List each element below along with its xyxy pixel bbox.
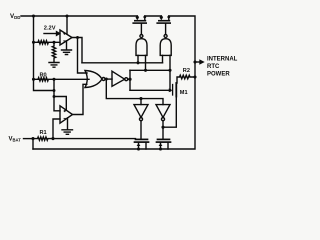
svg-text:POWER: POWER xyxy=(207,71,230,77)
svg-text:R1: R1 xyxy=(40,130,47,136)
svg-text:VBAT: VBAT xyxy=(9,137,22,143)
svg-text:R2: R2 xyxy=(183,68,190,74)
svg-text:RTC: RTC xyxy=(207,64,220,70)
svg-text:VDD: VDD xyxy=(10,13,20,20)
svg-text:R0: R0 xyxy=(40,72,47,78)
svg-text:M1: M1 xyxy=(180,90,188,96)
svg-text:2.2V: 2.2V xyxy=(44,26,56,32)
svg-text:INTERNAL: INTERNAL xyxy=(207,57,238,63)
